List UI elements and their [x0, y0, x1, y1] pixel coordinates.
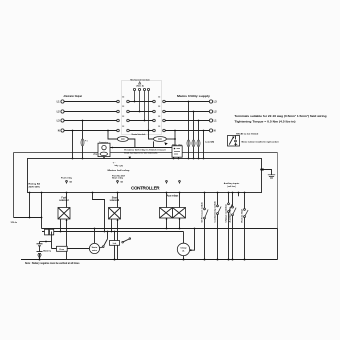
svg-text:Mechanical Interlock: Mechanical Interlock [130, 78, 150, 81]
svg-text:250V 50Hz: 250V 50Hz [29, 186, 41, 188]
svg-text:CONTROLLER: CONTROLLER [131, 186, 160, 191]
svg-text:12V dc: 12V dc [11, 222, 18, 224]
svg-text:(Note 4): (Note 4) [136, 85, 143, 88]
svg-text:Starter: Starter [92, 246, 98, 249]
svg-text:Fuel relay: Fuel relay [61, 177, 73, 179]
svg-text:Load (N): Load (N) [205, 141, 214, 143]
svg-text:(volt free): (volt free) [227, 185, 236, 188]
svg-text:Aux relays: Aux relays [167, 195, 179, 198]
svg-text:Start: Start [112, 196, 117, 199]
svg-text:plug: plug [93, 154, 97, 156]
svg-text:Battery: Battery [43, 249, 51, 252]
svg-text:Mains Utility supply: Mains Utility supply [177, 95, 211, 98]
svg-text:1 2: 1 2 [158, 126, 160, 128]
svg-text:Note : Battery negative must b: Note : Battery negative must be earthed … [25, 262, 80, 265]
svg-text:Link: Link [113, 243, 117, 245]
svg-text:Mains relay: Mains relay [172, 144, 182, 146]
svg-text:1 2: 1 2 [122, 116, 124, 118]
svg-text:1 2: 1 2 [158, 116, 160, 118]
svg-text:motor: motor [92, 249, 97, 252]
svg-text:Auxiliary input: Auxiliary input [228, 207, 231, 222]
svg-text:Fuel: Fuel [61, 197, 66, 199]
svg-text:solenoid: solenoid [59, 200, 69, 202]
svg-text:Oil Pressure switch: Oil Pressure switch [200, 202, 203, 223]
svg-text:Part No 057: Part No 057 [112, 175, 126, 178]
svg-text:1 2: 1 2 [122, 96, 124, 98]
svg-text:1 2: 1 2 [158, 106, 160, 108]
svg-text:Coolant temp switch: Coolant temp switch [213, 200, 216, 222]
svg-text:Rating 8A: Rating 8A [29, 182, 41, 185]
svg-text:link between terminals: link between terminals [124, 152, 159, 155]
svg-text:Connector: Connector [99, 141, 108, 144]
svg-text:Tightening Torque = 0.5 Nm (4.: Tightening Torque = 0.5 Nm (4.5 lbs-in) [235, 120, 296, 123]
svg-text:N: N [58, 129, 60, 133]
svg-text:solenoid: solenoid [110, 200, 120, 202]
svg-text:1 2: 1 2 [122, 106, 124, 108]
svg-text:Mains isolator installed in ri: Mains isolator installed in rigid condui… [242, 140, 279, 143]
svg-text:Terminals suitable for 22-16 a: Terminals suitable for 22-16 awg (0.5mm²… [235, 114, 328, 118]
svg-text:+ -: + - [113, 163, 116, 165]
svg-text:Auxiliary inputs: Auxiliary inputs [224, 182, 240, 185]
svg-text:If mains fail relay is fitted: If mains fail relay is fitted remove [124, 149, 167, 152]
svg-text:F 1: F 1 [85, 141, 88, 143]
svg-text:Charge excitation: Charge excitation [224, 203, 227, 222]
svg-text:Neutral interlock: Neutral interlock [132, 133, 146, 136]
svg-text:Charge: Charge [180, 248, 186, 250]
svg-text:N: N [214, 129, 216, 133]
svg-text:1 2: 1 2 [158, 96, 160, 98]
svg-text:Mains fail relay: Mains fail relay [108, 170, 131, 172]
svg-text:Alternator Output: Alternator Output [64, 95, 83, 98]
svg-text:Remote Start: Remote Start [240, 209, 243, 223]
svg-text:1 2: 1 2 [122, 126, 124, 128]
